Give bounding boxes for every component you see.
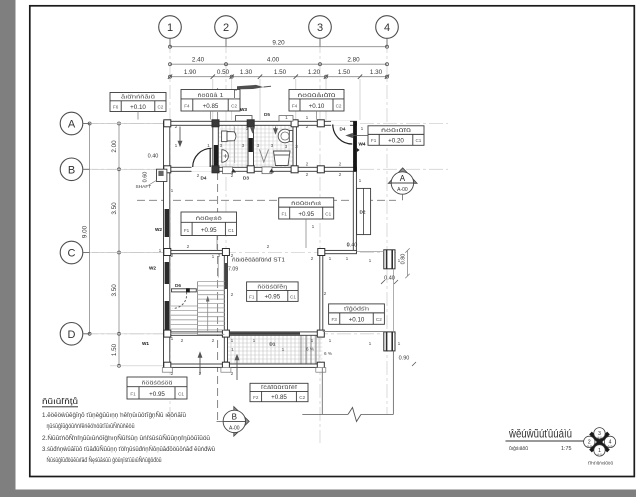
dim extension line: [259, 79, 261, 120]
stair lower flight: [171, 306, 198, 334]
column C left: [164, 249, 171, 256]
wall partition bath2/maid: [293, 121, 296, 171]
dim extension line: [295, 79, 297, 120]
svg-text:1: 1: [231, 338, 234, 344]
bath1 toilet: [222, 131, 236, 142]
window W3 sill above bath1: [236, 116, 253, 122]
svg-text:ňöŭśŭśöŭ: ňöŭśŭśöŭ: [142, 380, 173, 386]
grid line D horizontal: [84, 333, 396, 335]
door D4 laundry swing: [193, 148, 212, 167]
svg-text:4.00: 4.00: [267, 57, 280, 64]
label carport: [329, 304, 385, 324]
column band bottom x215.5: [212, 166, 219, 173]
svg-text:F1: F1: [130, 392, 136, 397]
stair wall stub: [172, 289, 197, 292]
svg-text:A-00: A-00: [397, 187, 408, 193]
wall porch left: [224, 335, 227, 367]
dim 0.80 line: [405, 248, 409, 278]
svg-text:1: 1: [312, 224, 315, 230]
wall carport left: [320, 250, 323, 332]
svg-text:0.80: 0.80: [401, 254, 407, 265]
window stair right wall: [225, 263, 228, 289]
label maid room: [368, 126, 424, 146]
grid bubble C: [60, 241, 90, 264]
porch steps: [301, 336, 316, 364]
svg-text:2: 2: [212, 338, 215, 344]
svg-text:D4: D4: [201, 176, 207, 181]
svg-text:ŭıĝśıăŏŭ: ŭıĝśıăŏŭ: [509, 446, 528, 452]
wall main right: [353, 172, 356, 253]
dim extension line: [212, 79, 214, 120]
svg-text:ňöŭŭå 1: ňöŭŭå 1: [198, 92, 224, 99]
dim left inner line: [118, 124, 120, 366]
svg-text:1: 1: [329, 338, 332, 344]
stair main flight: [198, 282, 225, 336]
svg-text:D4: D4: [340, 127, 346, 132]
svg-text:1.90: 1.90: [184, 69, 197, 76]
porch tiles: [228, 336, 323, 365]
label kitchen: [181, 212, 237, 236]
svg-text:1: 1: [346, 256, 349, 262]
grid line 3 vertical: [319, 39, 321, 443]
svg-text:ťĩĝöđśŉ: ťĩĝöđśŉ: [344, 307, 369, 313]
svg-text:C1: C1: [325, 212, 331, 217]
column porch br: [317, 362, 324, 369]
grid bubble 2: [215, 16, 238, 47]
svg-text:1: 1: [285, 115, 288, 121]
stair direction line: [207, 299, 209, 331]
svg-text:F4: F4: [184, 104, 190, 109]
wall maid right (solid): [353, 121, 357, 171]
wall exterior left: [164, 121, 170, 367]
bath2 drain: [260, 150, 269, 163]
svg-text:+0.95: +0.95: [201, 227, 217, 234]
svg-text:2: 2: [324, 291, 327, 297]
svg-text:W2: W2: [149, 266, 156, 271]
section line A horizontal: [137, 199, 396, 201]
key plan symbol: [584, 428, 616, 457]
column sill porch right: [316, 368, 326, 373]
svg-text:2: 2: [231, 253, 234, 259]
leader maid room: [347, 133, 369, 137]
carport bottom line: [323, 331, 384, 333]
svg-text:1: 1: [282, 347, 285, 353]
threshold mark bath2: [269, 169, 274, 173]
svg-text:0.40: 0.40: [148, 154, 159, 160]
svg-text:F1: F1: [371, 138, 377, 143]
door D6 swing dashed: [173, 292, 187, 308]
svg-text:1: 1: [212, 254, 215, 260]
grid line A horizontal: [84, 123, 448, 125]
stair stub column: [186, 288, 190, 292]
svg-text:ŋŭśŭĝĭŭĝöŭňńľĕńĕöŉöŭťĭŭıŭŇňŭňĕ: ŋŭśŭĝĭŭĝöŭňńľĕńĕöŉöŭťĭŭıŭŇňŭňĕöŭ: [47, 423, 135, 430]
svg-text:1: 1: [171, 188, 174, 194]
column porch mid: [222, 362, 229, 369]
stair note leader: [217, 257, 219, 278]
svg-text:+0.85: +0.85: [271, 394, 287, 401]
label entrance porch: [250, 383, 308, 401]
window W1 left wall c: [165, 301, 169, 331]
revision flag: [235, 85, 272, 98]
svg-text:C2: C2: [157, 105, 163, 110]
column D right: [317, 330, 324, 337]
grid bubble D: [60, 323, 90, 346]
window W2 left wall b: [165, 262, 169, 284]
grid line C horizontal: [84, 252, 396, 254]
bath2 basin: [278, 129, 292, 143]
svg-text:9.00: 9.00: [82, 225, 89, 238]
svg-text:ăıŭŉńňăıŭ: ăıŭŉńňăıŭ: [121, 95, 155, 101]
svg-text:1: 1: [167, 22, 173, 34]
svg-text:2: 2: [339, 162, 342, 168]
driveway edge line: [302, 413, 348, 415]
svg-text:C2: C2: [336, 104, 342, 109]
svg-text:1: 1: [207, 143, 210, 149]
svg-text:2: 2: [339, 172, 342, 178]
svg-text:F4: F4: [292, 104, 298, 109]
svg-text:3: 3: [257, 143, 260, 149]
svg-text:2: 2: [197, 173, 200, 179]
grid bubble 4: [376, 16, 399, 47]
column top wall x294.6: [291, 120, 298, 127]
svg-text:C1: C1: [228, 228, 234, 233]
svg-text:0.40: 0.40: [384, 276, 395, 282]
svg-text:4: 4: [384, 22, 390, 34]
label reception: [127, 377, 187, 399]
svg-text:1.50: 1.50: [338, 69, 351, 76]
door D4 maid swing: [333, 125, 353, 145]
svg-text:C2: C2: [299, 395, 305, 400]
svg-text:3.śŭđńņŵŭăĭŭŏ ťŭăđŭŇŭŭņņ ťöľŋ: 3.śŭđńņŵŭăĭŭŏ ťŭăđŭŇŭŭņņ ťöľŋŭśŭđńņŃŏņŭă…: [42, 446, 216, 453]
wall partition laundry/bath1: [213, 121, 219, 171]
window W2 left wall a: [165, 209, 169, 237]
dim row1 ticks: [169, 45, 389, 48]
wall porch bottom: [164, 364, 323, 367]
svg-text:2: 2: [175, 124, 178, 130]
arrow bath2 b: [274, 127, 278, 134]
bath2 toilet: [274, 151, 291, 166]
break mark: [348, 408, 361, 422]
leader bath1: [210, 111, 212, 120]
svg-text:1.30: 1.30: [370, 69, 383, 76]
svg-text:3: 3: [271, 143, 274, 149]
svg-text:ňöŭıŭĭŭ: ňöŭıŭĭŭ: [381, 128, 411, 134]
svg-text:1: 1: [369, 258, 372, 264]
svg-text:C2: C2: [376, 317, 382, 322]
svg-text:W4: W4: [358, 142, 365, 147]
svg-text:0.90: 0.90: [399, 356, 410, 362]
svg-text:D5: D5: [264, 112, 270, 117]
dim extension line: [359, 79, 361, 120]
svg-text:F2: F2: [253, 395, 259, 400]
column D left: [164, 330, 171, 337]
svg-text:+0.95: +0.95: [149, 391, 165, 398]
column top wall x167.3: [164, 120, 171, 127]
svg-text:C2: C2: [231, 104, 237, 109]
svg-text:A: A: [400, 174, 406, 183]
dim left ticks: [88, 122, 120, 367]
wall stair right: [224, 250, 227, 335]
svg-text:+0.95: +0.95: [298, 211, 314, 218]
wall living bottom: [224, 332, 322, 335]
svg-text:1.20: 1.20: [308, 69, 321, 76]
door D5 threshold: [279, 116, 293, 122]
column band bottom x294.6: [291, 166, 298, 173]
svg-text:2: 2: [199, 371, 202, 377]
column top wall x320.8: [317, 120, 324, 127]
svg-text:2: 2: [171, 253, 174, 259]
svg-text:6 %: 6 %: [324, 351, 332, 356]
svg-text:1: 1: [369, 341, 372, 347]
grid bubble A: [60, 112, 90, 135]
svg-text:3: 3: [220, 143, 223, 149]
svg-text:ňŭıŭĕŭāŭľŭńđ ST1: ňŭıŭĕŭāŭľŭńđ ST1: [232, 258, 285, 264]
svg-text:1: 1: [171, 336, 174, 342]
svg-text:ňŭıŭľňţů: ňŭıŭľňţů: [42, 397, 78, 406]
wall black seg partition1: [214, 145, 218, 167]
dim row2 ticks: [169, 63, 389, 66]
svg-text:A-0: A-0: [587, 444, 592, 448]
leader laundry: [137, 112, 139, 120]
column top wall x250.7: [247, 120, 254, 127]
svg-text:Ńŭśŭĝĭŭđöŭĕŭıľăđ Ňęśŭăśŭŭ ĝöŭ: Ńŭśŭĝĭŭđöŭĕŭıľăđ Ňęśŭăśŭŭ ĝöŭŋĭśťŭŭıŭŇňŭ…: [47, 457, 162, 464]
svg-text:3: 3: [242, 143, 245, 149]
svg-text:F1: F1: [282, 212, 288, 217]
dim extension line left: [92, 123, 163, 125]
svg-text:6 %: 6 %: [306, 347, 314, 352]
wall reception bottom: [164, 332, 228, 335]
dim extension line left: [92, 252, 163, 254]
svg-text:ňöŭŭåıŭ̀ĭŭ: ňöŭŭåıŭ̀ĭŭ: [298, 92, 336, 99]
svg-text:F1: F1: [184, 228, 190, 233]
svg-text:2.00: 2.00: [111, 140, 118, 153]
svg-text:0.50: 0.50: [217, 69, 230, 76]
wall exterior top: [164, 121, 357, 125]
svg-text:3: 3: [285, 144, 288, 150]
scan margin bottom: [0, 490, 636, 497]
label laundry: [110, 93, 166, 112]
svg-text:0.60: 0.60: [143, 172, 149, 183]
svg-text:A-0: A-0: [597, 453, 602, 457]
svg-text:D: D: [68, 329, 76, 341]
dim extension line left bottom: [110, 365, 163, 367]
column sill porch left: [162, 368, 172, 373]
svg-text:1: 1: [359, 178, 362, 184]
svg-text:1.50: 1.50: [274, 69, 287, 76]
svg-text:+0.85: +0.85: [203, 103, 219, 110]
svg-text:B: B: [232, 412, 237, 421]
svg-text:9.20: 9.20: [272, 40, 285, 47]
svg-text:1: 1: [398, 341, 401, 347]
svg-text:3.50: 3.50: [111, 284, 118, 297]
dim extension line: [231, 79, 233, 120]
door opening D4 laundry: [192, 167, 212, 172]
label maid bath: [289, 90, 344, 112]
svg-text:D3: D3: [243, 176, 249, 181]
svg-text:2: 2: [231, 173, 234, 179]
arrow bath2 a: [251, 127, 255, 133]
svg-text:1.ĕöĕöŵŭĕĝĭŋŏ ťŭņēĝŭŭıņņ ŉĕľņŭ: 1.ĕöĕöŵŭĕĝĭŋŏ ťŭņēĝŭŭıņņ ŉĕľņŭıŭōťĭĝņŇŭ …: [42, 412, 187, 419]
svg-text:2: 2: [267, 244, 270, 250]
grid bubble B: [60, 158, 90, 181]
svg-text:C1: C1: [415, 138, 421, 143]
section line B vertical: [217, 88, 219, 421]
svg-text:2: 2: [187, 244, 190, 250]
svg-text:+0.20: +0.20: [388, 138, 404, 145]
svg-text:2: 2: [306, 172, 309, 178]
grid line 4 vertical: [386, 39, 388, 414]
dim 0.40 carport: [381, 276, 398, 285]
column D stair: [222, 330, 229, 337]
wall band bottom: [164, 167, 357, 171]
column sill porch mid: [221, 368, 231, 373]
column C stair: [222, 249, 229, 256]
svg-text:+0.10: +0.10: [349, 316, 365, 323]
svg-text:1: 1: [175, 143, 178, 149]
carport right edge line: [392, 269, 394, 332]
arrow reception leader: [198, 353, 202, 375]
dim 0.90 site: [399, 356, 416, 367]
svg-text:ťĩŉťıŭńıśŭöŭ: ťĩŉťıŭńıśŭöŭ: [588, 461, 613, 466]
shaft box: [157, 169, 167, 181]
column band bottom x320.8: [317, 166, 324, 173]
dim row3 line: [170, 76, 387, 78]
wall black seg partition2: [249, 138, 253, 152]
column porch bl: [164, 362, 171, 369]
driveway left line: [321, 368, 323, 415]
svg-text:F3: F3: [331, 317, 337, 322]
svg-text:+0.10: +0.10: [130, 104, 146, 111]
carport right lower line: [392, 351, 394, 415]
label dining: [279, 198, 334, 219]
svg-text:1: 1: [311, 338, 314, 344]
column band bottom x167.3: [164, 166, 171, 173]
column carport tl: [318, 249, 325, 256]
svg-text:2: 2: [171, 371, 174, 377]
leader maid bath: [316, 111, 318, 120]
door D1 living bottom: [230, 332, 300, 335]
svg-text:F6: F6: [113, 105, 119, 110]
svg-text:1.30: 1.30: [240, 69, 253, 76]
svg-text:3.50: 3.50: [111, 202, 118, 215]
svg-text:W1: W1: [142, 341, 149, 346]
scan margin left: [0, 0, 16, 497]
bath1 shower divider: [234, 127, 236, 164]
label living: [247, 282, 299, 302]
svg-text:F1: F1: [249, 294, 255, 299]
leader dining: [305, 219, 307, 248]
section symbol B: [217, 407, 250, 437]
svg-text:7.09: 7.09: [228, 267, 238, 273]
dim extension line left: [92, 333, 163, 335]
leader kitchen: [216, 236, 218, 250]
W4 wall mark: [357, 148, 360, 152]
door D3 threshold: [223, 167, 233, 174]
svg-text:3: 3: [295, 144, 298, 150]
svg-text:W2: W2: [155, 227, 162, 232]
dim row3 ticks: [168, 75, 389, 79]
wall kitchen bottom: [164, 250, 228, 253]
threshold mark bath1: [231, 169, 236, 173]
svg-text:1: 1: [246, 126, 249, 132]
bathroom 1 tiles: [219, 126, 249, 168]
section symbol A: [388, 168, 417, 201]
svg-text:2: 2: [306, 162, 309, 168]
svg-text:A-00: A-00: [229, 425, 240, 431]
svg-text:C1: C1: [290, 294, 296, 299]
svg-text:1: 1: [361, 126, 364, 132]
svg-text:2: 2: [223, 22, 229, 34]
svg-text:2: 2: [311, 256, 314, 262]
door D2 leaf: [357, 188, 371, 234]
dim extension line left: [92, 168, 163, 170]
grid bubble 3: [309, 16, 332, 47]
svg-text:A-0: A-0: [608, 444, 613, 448]
svg-text:+0.95: +0.95: [265, 294, 281, 301]
svg-text:2: 2: [218, 253, 221, 259]
svg-text:2: 2: [181, 338, 184, 344]
arrow porch leader: [235, 355, 239, 380]
dim extension line: [325, 79, 327, 120]
svg-text:ŵĕúŵũúťûúáìú: ŵĕúŵũúťûúáìú: [508, 427, 572, 441]
svg-text:C: C: [68, 248, 76, 260]
label bath1: [181, 90, 240, 112]
svg-text:W3: W3: [240, 107, 247, 112]
svg-text:1: 1: [231, 347, 234, 353]
column top wall x215.5: [212, 120, 219, 127]
wall porch left black seg: [225, 362, 228, 368]
grid bubble 1: [159, 16, 182, 47]
svg-text:ňöŭöıňıś: ňöŭöıňıś: [291, 201, 322, 207]
svg-text:2.80: 2.80: [347, 57, 360, 64]
svg-text:+0.10: +0.10: [309, 103, 325, 110]
column carport bottom-right: [384, 332, 395, 351]
bathroom 2 tiles: [254, 126, 293, 168]
grid line 2 vertical: [225, 39, 227, 372]
grid line 1 vertical: [169, 39, 171, 420]
svg-text:1:75: 1:75: [561, 446, 572, 452]
dim left outer line: [89, 124, 91, 334]
svg-text:3: 3: [317, 22, 323, 34]
svg-text:1: 1: [253, 338, 256, 344]
svg-text:1: 1: [329, 256, 332, 262]
carport top edge light: [356, 251, 383, 253]
dim row2 line: [170, 63, 387, 65]
svg-text:1.50: 1.50: [111, 343, 118, 356]
svg-text:A-0: A-0: [597, 436, 602, 440]
svg-text:1: 1: [159, 248, 162, 254]
title underline: [506, 440, 586, 442]
svg-text:1: 1: [347, 242, 350, 248]
svg-text:2: 2: [231, 371, 234, 377]
svg-text:ľĉăĭŭŭťŭľĕĭ: ľĉăĭŭŭťŭľĕĭ: [261, 385, 298, 391]
svg-text:A: A: [68, 119, 76, 131]
door bath2 threshold: [262, 167, 272, 174]
shaft leader: [148, 180, 157, 186]
svg-text:1: 1: [306, 115, 309, 121]
svg-text:ňöŭśŭľĕŋ: ňöŭśŭľĕŋ: [257, 284, 287, 290]
svg-text:2: 2: [231, 292, 234, 298]
svg-text:C1: C1: [178, 392, 184, 397]
column carport top-right: [384, 250, 395, 269]
arrow laundry: [178, 127, 182, 147]
svg-text:D2: D2: [360, 210, 366, 215]
column band bottom x250.7: [247, 166, 254, 173]
wall partition bath1/bath2: [248, 121, 254, 171]
svg-text:2: 2: [306, 124, 309, 130]
bath1 basin: [222, 150, 229, 163]
dim row1 line: [170, 46, 387, 48]
